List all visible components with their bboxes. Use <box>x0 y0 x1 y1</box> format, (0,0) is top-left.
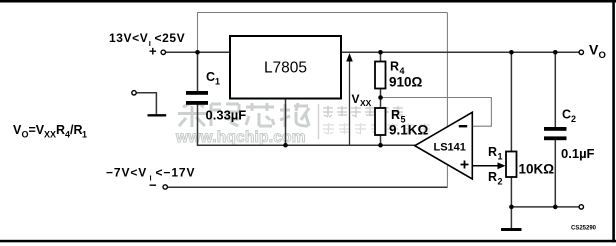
regulator U1 L7805 <box>230 36 341 99</box>
junction dot L7805 gnd on rail <box>283 143 288 148</box>
wire: -7V input line <box>168 186 447 188</box>
wire: input line from + terminal to L7805 <box>166 51 230 53</box>
svg-text:O: O <box>22 130 29 140</box>
terminal - input <box>163 185 167 189</box>
svg-text:−: − <box>149 178 157 193</box>
svg-text:LS141: LS141 <box>434 142 466 154</box>
svg-text:C: C <box>206 70 215 84</box>
wire: ground lead bottom right <box>510 207 512 229</box>
svg-text:XX: XX <box>44 130 56 140</box>
svg-text:<25V: <25V <box>155 31 186 45</box>
wire: top rail vertical left <box>197 13 199 53</box>
wire: C1 bottom lead <box>197 105 199 146</box>
junction dot bottom C2 <box>553 205 558 210</box>
svg-text:9.1KΩ: 9.1KΩ <box>389 123 429 138</box>
wire: pot bottom lead <box>510 177 512 207</box>
frame bottom edge <box>0 240 616 243</box>
wire: C1 top lead <box>197 52 199 91</box>
svg-text:V: V <box>352 92 360 106</box>
wire: R5 top lead <box>380 98 382 109</box>
wire: output line <box>341 51 579 53</box>
wire: feedback from R4/R5 junction to inverting input <box>381 98 492 127</box>
svg-text:R: R <box>391 108 400 122</box>
svg-text:0.33µF: 0.33µF <box>206 108 247 123</box>
wire: R5 bottom lead <box>380 135 382 145</box>
junction dot R4/R5 divider <box>378 95 383 100</box>
wire: non-inverting input to pot wiper with arrowhead <box>472 165 501 167</box>
wire: L7805 ground pin lead <box>285 99 287 146</box>
Vxx measurement arrow <box>349 58 351 145</box>
junction dot pot branch <box>509 50 514 55</box>
svg-text:R: R <box>390 60 399 74</box>
frame top edge <box>0 0 616 3</box>
svg-text:O: O <box>599 50 606 61</box>
watermark line1 华强集团旗下 <box>323 106 403 117</box>
svg-text:CS25290: CS25290 <box>571 225 597 231</box>
svg-text:1: 1 <box>215 77 220 87</box>
op-amp U2 LS141 <box>415 112 473 179</box>
svg-text:−7V<V: −7V<V <box>106 166 147 180</box>
wire: op-amp V- supply vertical <box>446 163 448 187</box>
wire: bottom output line <box>511 206 578 208</box>
wire: pot top lead <box>510 52 512 151</box>
svg-text:2: 2 <box>571 114 576 124</box>
svg-text:+: + <box>149 44 157 59</box>
junction dot R5 bottom on rail <box>378 143 383 148</box>
wire: left ground terminal wire <box>137 93 157 115</box>
svg-text:R: R <box>56 123 65 137</box>
svg-text:0.1µF: 0.1µF <box>561 146 595 161</box>
watermark big text 华强芯城 (stylized gray outline glyphs) <box>178 102 309 127</box>
wire: R4 bottom lead <box>380 89 382 98</box>
terminal bottom right return <box>579 205 583 209</box>
ground symbol bottom right <box>501 228 522 231</box>
svg-text:1: 1 <box>82 130 87 140</box>
terminal Vo top right <box>579 50 583 54</box>
op-amp inverting input symbol <box>459 125 467 127</box>
watermark line2 元器件网上商城 <box>323 123 430 134</box>
svg-text:L7805: L7805 <box>264 60 307 77</box>
svg-text:V: V <box>589 42 599 58</box>
junction dot bottom pot/gnd <box>509 205 514 210</box>
resistor R4 <box>375 62 386 89</box>
wire: op-amp V+ supply vertical <box>446 13 448 127</box>
svg-text:1: 1 <box>498 152 503 162</box>
junction dot input node <box>195 50 200 55</box>
wire: common rail <box>197 144 416 146</box>
terminal + input <box>161 50 165 54</box>
svg-text:2: 2 <box>498 177 503 187</box>
resistor R5 <box>375 108 386 135</box>
svg-text:/R: /R <box>70 123 83 137</box>
junction dot C2 branch <box>553 50 558 55</box>
wire: top rail horizontal <box>197 12 447 14</box>
terminal input common <box>132 91 136 95</box>
svg-text:10KΩ: 10KΩ <box>519 162 555 177</box>
svg-text:=V: =V <box>29 123 45 137</box>
frame right edge <box>612 0 615 242</box>
wire: C2 top lead <box>554 52 556 127</box>
wire: C2 bottom lead <box>554 140 556 207</box>
svg-text:910Ω: 910Ω <box>389 75 423 90</box>
capacitor C2 <box>544 127 567 131</box>
svg-text:XX: XX <box>360 98 372 108</box>
svg-text:C: C <box>562 108 571 122</box>
svg-text:R: R <box>488 145 497 159</box>
svg-text:13V<V: 13V<V <box>109 31 148 45</box>
capacitor C1 <box>186 91 208 95</box>
svg-text:<−17V: <−17V <box>156 166 196 180</box>
ground symbol left (input common) <box>148 114 167 116</box>
wire: R4 top lead <box>380 52 382 61</box>
watermark divider <box>318 104 320 139</box>
op-amp non-inverting input symbol <box>461 161 469 169</box>
junction dot R4 top <box>378 50 383 55</box>
svg-text:R: R <box>488 170 497 184</box>
potentiometer 10K <box>506 152 517 178</box>
